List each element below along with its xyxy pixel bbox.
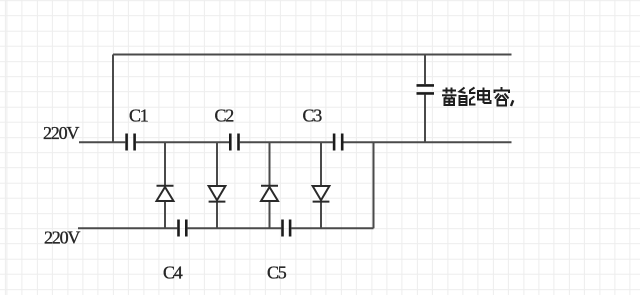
wire D3 stubs	[269, 142, 271, 186]
diode D3 (cathode up)	[261, 186, 278, 201]
capacitor C5	[283, 220, 291, 237]
capacitor C4	[179, 220, 187, 237]
capacitor C1	[127, 134, 135, 151]
wire middle bus right of C1	[136, 141, 229, 143]
wire middle bus right of C2	[240, 141, 333, 143]
diode D2 (cathode down)	[209, 186, 226, 202]
svg-text:C1: C1	[129, 106, 148, 126]
capacitor C2	[230, 134, 238, 151]
wire storage-cap branch lower	[424, 95, 426, 143]
diode D4 (cathode down)	[313, 186, 330, 202]
svg-text:220V: 220V	[44, 228, 80, 248]
wire D4 stubs	[320, 142, 322, 186]
svg-text:220V: 220V	[43, 123, 79, 143]
label 蓄能电容, (storage capacitor annotation, drawn strokes)	[442, 87, 513, 106]
wire bottom bus right of C4	[188, 227, 282, 229]
capacitor C3	[334, 134, 342, 151]
char 能	[460, 88, 476, 106]
svg-text:C5: C5	[267, 263, 287, 283]
svg-text:C2: C2	[215, 106, 234, 126]
char 电	[478, 88, 491, 104]
wire right vertical (mid bus to bottom bus)	[373, 142, 375, 228]
char 蓄	[442, 88, 457, 106]
wire bottom bus right of C5	[291, 227, 373, 229]
comma	[511, 100, 513, 106]
wire D2 stubs	[216, 142, 218, 186]
wire top bus	[113, 54, 512, 56]
wire D1 anode/cathode stubs	[164, 142, 166, 186]
wire left vertical (top bus to mid bus)	[112, 55, 114, 143]
svg-text:C4: C4	[163, 263, 183, 283]
diode D1 (cathode up)	[157, 186, 174, 201]
char 容	[495, 87, 510, 106]
wire bottom bus	[78, 227, 177, 229]
wire middle bus right of C3	[344, 141, 512, 143]
wire storage-cap branch upper	[424, 55, 426, 85]
wire middle bus	[79, 141, 125, 143]
capacitor storage (top right)	[417, 85, 435, 93]
svg-text:C3: C3	[303, 106, 323, 126]
